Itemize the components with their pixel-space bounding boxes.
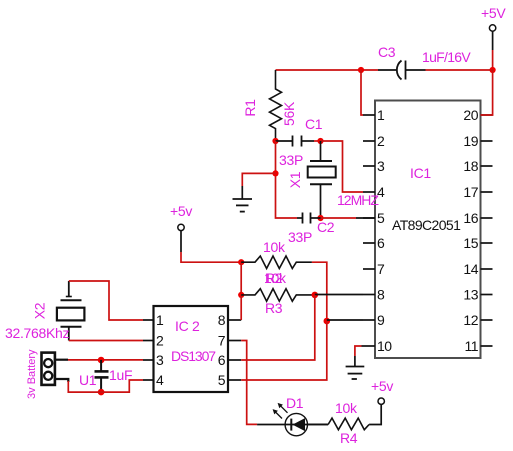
wire R2 right down to pin9 node <box>312 262 327 321</box>
IC1 pin number 20 <box>463 107 478 123</box>
svg-text:7: 7 <box>377 261 385 277</box>
svg-text:5: 5 <box>218 372 226 388</box>
svg-text:6: 6 <box>377 235 385 251</box>
IC1 pin 9 stub <box>363 319 375 321</box>
IC1 value AT89C2051 <box>392 217 461 233</box>
svg-text:IC1: IC1 <box>410 165 431 181</box>
resistor R3 <box>241 289 315 302</box>
svg-text:10k: 10k <box>264 270 287 286</box>
IC1 AT89C2051 body <box>375 101 481 359</box>
svg-text:3: 3 <box>156 352 164 368</box>
wire to ground G1 <box>242 173 275 186</box>
wire +5v to R2/R3 rail <box>181 252 241 262</box>
R3 label <box>265 300 283 316</box>
wire pin9 node down to IC2 pin 5 <box>241 321 327 380</box>
R1 label <box>242 99 258 117</box>
svg-text:1: 1 <box>156 312 164 328</box>
U1 value 1uF <box>109 367 132 383</box>
X1 value 12MHZ <box>337 192 379 208</box>
IC2 DS1307 body <box>154 306 229 392</box>
wire junction down to pin1 <box>361 70 363 115</box>
IC2 pin number 8 <box>218 312 226 328</box>
IC1 pin 13 stub <box>481 294 493 296</box>
svg-text:2: 2 <box>377 133 385 149</box>
R2 value 10k <box>263 239 286 255</box>
IC1 pin 16 stub <box>481 217 493 219</box>
svg-text:12MHZ: 12MHZ <box>337 192 379 208</box>
svg-text:12: 12 <box>463 312 478 328</box>
IC2 label <box>175 318 200 334</box>
svg-text:+5v: +5v <box>371 378 393 394</box>
C2 label <box>317 219 335 235</box>
wire C2 node to IC1 pin 5 <box>321 217 376 219</box>
svg-text:16: 16 <box>463 210 478 226</box>
wire R2-left node down to R3-left node <box>240 262 242 295</box>
wire X2 top to IC2 pin 1 <box>69 281 143 320</box>
IC1 pin number 13 <box>463 287 478 303</box>
svg-text:R1: R1 <box>242 99 258 117</box>
svg-text:1uF/16V: 1uF/16V <box>422 49 471 65</box>
node junction C2 right / X1 bottom <box>317 215 323 221</box>
node junction top-right <box>490 67 496 73</box>
svg-text:+5v: +5v <box>170 203 192 219</box>
+5v terminal (mid left) <box>178 224 184 252</box>
node junction R1 bottom / C1 left <box>272 138 278 144</box>
svg-text:X1: X1 <box>287 171 303 188</box>
IC1 pin number 1 <box>377 107 385 123</box>
IC1 pin number 4 <box>377 184 385 200</box>
wire IC1 pin10 to ground G2 <box>355 346 362 356</box>
svg-text:17: 17 <box>463 184 478 200</box>
IC2 pin number 7 <box>218 333 226 349</box>
wire node to IC1 pin 8 <box>315 294 363 296</box>
IC1 pin 11 stub <box>481 345 493 347</box>
IC1 pin 8 stub <box>363 294 375 296</box>
IC1 pin number 16 <box>463 210 478 226</box>
crystal X2 <box>57 281 85 341</box>
IC1 pin 18 stub <box>481 165 493 167</box>
D1 label <box>286 395 304 411</box>
svg-text:D1: D1 <box>286 395 304 411</box>
capacitor C1 <box>276 136 315 147</box>
IC1 pin 12 stub <box>481 319 493 321</box>
svg-text:56K: 56K <box>281 101 297 126</box>
IC1 pin number 11 <box>464 338 478 354</box>
wire top rail left segment (R1 top to C3 left) <box>276 69 379 71</box>
svg-text:6: 6 <box>218 352 226 368</box>
C3 label <box>378 44 396 60</box>
svg-text:5: 5 <box>377 210 385 226</box>
+5V label top right <box>481 5 506 21</box>
ground G2 <box>346 356 365 379</box>
node junction R3 left <box>238 292 244 298</box>
svg-text:11: 11 <box>464 338 478 354</box>
svg-text:X2: X2 <box>32 302 48 319</box>
wire C1 right to node <box>314 140 321 142</box>
IC1 pin number 7 <box>377 261 385 277</box>
resistor R4 <box>328 418 369 430</box>
R4 value 10k <box>335 400 358 416</box>
crystal X1 <box>308 141 336 218</box>
IC2 pin 7 stub <box>228 340 241 342</box>
svg-text:8: 8 <box>218 312 226 328</box>
IC1 pin number 2 <box>377 133 385 149</box>
IC2 pin number 3 <box>156 352 164 368</box>
node junction IC1 pin 9 <box>324 318 331 325</box>
IC1 pin 4 stub <box>363 191 375 193</box>
wire X2 bottom to IC2 pin 2 <box>69 340 143 342</box>
wire left rail (C1 node down to C2 row) <box>276 141 298 218</box>
node junction U1 top <box>98 357 105 364</box>
svg-text:15: 15 <box>463 235 478 251</box>
node junction ground branch <box>272 170 278 176</box>
IC2 pin number 2 <box>156 333 164 349</box>
svg-text:3v Battery: 3v Battery <box>26 349 38 399</box>
svg-text:10k: 10k <box>263 239 286 255</box>
svg-text:7: 7 <box>218 333 226 349</box>
svg-text:33P: 33P <box>279 152 303 168</box>
X1 label <box>287 171 303 188</box>
+5v label mid <box>170 203 192 219</box>
IC2 pin number 6 <box>218 352 226 368</box>
IC1 pin 15 stub <box>481 242 493 244</box>
IC1 pin 14 stub <box>481 268 493 270</box>
wire R3-left node down to IC2 pin 8 <box>240 295 242 320</box>
node junction C3 left <box>358 67 364 73</box>
IC2 pin 6 stub <box>228 359 241 361</box>
resistor R1 <box>270 70 282 141</box>
svg-text:18: 18 <box>463 158 478 174</box>
wire +5V down to top rail <box>492 50 494 70</box>
capacitor C2 <box>297 213 321 224</box>
IC1 pin number 14 <box>463 261 478 277</box>
svg-text:10k: 10k <box>335 400 358 416</box>
IC1 pin number 8 <box>377 287 385 303</box>
battery label 3v Battery <box>26 349 38 399</box>
capacitor U1 <box>95 360 109 392</box>
IC1 pin number 10 <box>377 338 392 354</box>
+5v label bottom right <box>371 378 393 394</box>
R4 label <box>340 430 358 446</box>
IC1 pin 7 stub <box>363 268 375 270</box>
capacitor C3 <box>378 61 426 80</box>
X2 label <box>32 302 48 319</box>
svg-text:33P: 33P <box>288 229 312 245</box>
IC1 pin number 18 <box>463 158 478 174</box>
svg-text:10: 10 <box>377 338 392 354</box>
node junction R3 right / IC1 pin 8 <box>312 292 319 299</box>
+5V terminal top right <box>489 25 495 50</box>
wire top rail right segment (C3 right to junction) <box>426 69 493 71</box>
battery BT1 3v <box>42 353 69 385</box>
IC1 pin number 17 <box>463 184 478 200</box>
wire node to IC1 pin 9 <box>327 319 363 321</box>
svg-text:IC 2: IC 2 <box>175 318 200 334</box>
svg-text:14: 14 <box>463 261 478 277</box>
IC2 pin 1 stub <box>143 319 154 321</box>
IC1 pin number 12 <box>463 312 478 328</box>
wire battery+ to IC2 pin 3 <box>68 359 143 361</box>
IC2 pin number 5 <box>218 372 226 388</box>
IC1 pin 6 stub <box>363 242 375 244</box>
svg-text:4: 4 <box>377 184 385 200</box>
IC1 pin number 6 <box>377 235 385 251</box>
node junction R2 left <box>238 259 244 265</box>
svg-text:DS1307: DS1307 <box>171 348 216 364</box>
LED D1 <box>257 403 328 436</box>
svg-text:8: 8 <box>377 287 385 303</box>
IC2 pin number 1 <box>156 312 164 328</box>
second 33P label <box>288 229 312 245</box>
node junction U1 bottom <box>98 389 105 396</box>
ground G1 <box>233 186 253 212</box>
IC1 pin 10 stub <box>362 345 376 347</box>
IC1 pin number 9 <box>377 312 385 328</box>
IC1 label <box>410 165 431 181</box>
IC2 pin 5 stub <box>228 379 241 381</box>
svg-text:20: 20 <box>463 107 478 123</box>
svg-text:U1: U1 <box>79 372 97 388</box>
svg-text:C1: C1 <box>305 116 323 132</box>
svg-text:4: 4 <box>156 372 164 388</box>
IC2 value DS1307 <box>171 348 216 364</box>
wire IC2 pin 7 down to LED <box>241 341 257 425</box>
svg-text:32.768Khz: 32.768Khz <box>5 325 70 341</box>
IC2 pin number 4 <box>156 372 164 388</box>
U1 label <box>79 372 97 388</box>
svg-text:+5V: +5V <box>481 5 506 21</box>
IC1 pin 20 stub <box>481 114 493 116</box>
X2 value 32.768Khz <box>5 325 70 341</box>
IC1 pin 1 stub <box>363 114 375 116</box>
svg-text:19: 19 <box>463 133 478 149</box>
IC1 pin number 19 <box>463 133 478 149</box>
IC2 pin 4 stub <box>143 379 154 381</box>
R2 label (overlapping 10k) <box>264 270 287 286</box>
IC1 pin number 15 <box>463 235 478 251</box>
resistor R2 <box>241 256 312 269</box>
IC1 pin 19 stub <box>481 140 493 142</box>
svg-text:9: 9 <box>377 312 385 328</box>
node junction C1 right / X1 top <box>317 138 323 144</box>
svg-text:R4: R4 <box>340 430 358 446</box>
svg-text:C3: C3 <box>378 44 396 60</box>
C1 label <box>305 116 323 132</box>
IC1 pin 3 stub <box>363 165 375 167</box>
C1 value 33P <box>279 152 303 168</box>
wire R4 to +5v terminal <box>369 404 381 424</box>
IC2 pin 2 stub <box>143 340 154 342</box>
svg-text:3: 3 <box>377 158 385 174</box>
R1 value 56K <box>281 101 297 126</box>
wire battery- to IC2 pin 4 <box>68 380 143 392</box>
IC1 pin number 3 <box>377 158 385 174</box>
svg-text:1: 1 <box>377 107 385 123</box>
IC2 pin 3 stub <box>143 359 154 361</box>
svg-text:13: 13 <box>463 287 478 303</box>
svg-text:R3: R3 <box>265 300 283 316</box>
IC1 pin 5 stub <box>363 217 375 219</box>
wire C1 node to IC1 pin 4 <box>321 141 364 192</box>
+5v terminal bottom right <box>378 398 384 404</box>
IC1 pin number 5 <box>377 210 385 226</box>
C3 value 1uF/16V <box>422 49 471 65</box>
svg-text:AT89C2051: AT89C2051 <box>392 217 461 233</box>
svg-text:C2: C2 <box>317 219 335 235</box>
wire LED to R4 <box>307 423 328 425</box>
IC1 pin 17 stub <box>481 191 493 193</box>
wire junction down to pin20 <box>481 70 493 115</box>
svg-text:2: 2 <box>156 333 164 349</box>
IC1 pin 2 stub <box>363 140 375 142</box>
IC2 pin 8 stub <box>228 319 241 321</box>
wire R3-right node down to IC2 pin 6 <box>241 295 315 360</box>
